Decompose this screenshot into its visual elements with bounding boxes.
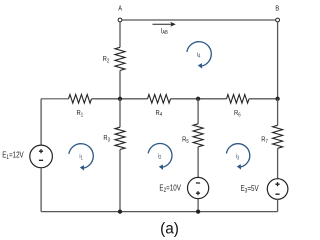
- wire: R5 down to E2: [197, 147, 199, 178]
- voltage source E2: [188, 177, 209, 198]
- wire: R3 down to bottom rail: [119, 150, 121, 212]
- loop current arrow i1: [69, 144, 93, 171]
- wire: middle rail left corner to R1: [41, 98, 68, 100]
- svg-text:E2=10V: E2=10V: [159, 184, 181, 194]
- wire: left rail down from middle rail to E1: [40, 99, 42, 145]
- wire: R1 to R4: [92, 98, 148, 100]
- label R3: [103, 135, 110, 144]
- label R5: [182, 136, 189, 145]
- wire: node B down to middle rail: [277, 22, 279, 99]
- junction dot middle rail at R5 branch: [196, 97, 200, 101]
- wire: top rail from node A to node B: [122, 19, 276, 21]
- svg-text:A: A: [118, 5, 122, 13]
- junction dot bottom rail at R3 branch: [118, 209, 122, 213]
- wire: R6 to right rail: [249, 98, 278, 100]
- wire: middle rail down to R7: [277, 99, 279, 126]
- junction dot middle rail at R3 branch: [118, 97, 122, 101]
- label R4: [156, 109, 163, 118]
- wire: E3 down to bottom rail: [277, 199, 279, 211]
- resistor R2: [115, 47, 125, 70]
- resistor R6: [227, 95, 250, 104]
- voltage source E3: [267, 179, 288, 200]
- resistor R3: [115, 127, 125, 149]
- node B label: [275, 5, 279, 13]
- wire: middle rail down to R5: [197, 99, 199, 124]
- wire: R4 to R6: [171, 98, 227, 100]
- label R2: [103, 55, 110, 64]
- wire: R2 down to middle rail: [119, 71, 121, 99]
- junction dot middle rail at right rail: [275, 97, 279, 101]
- svg-text:E1=12V: E1=12V: [2, 151, 24, 161]
- label I_AB: [161, 27, 168, 35]
- wire: E1 down to bottom rail: [40, 168, 42, 212]
- label E1=12V: [2, 151, 24, 161]
- label i3: [236, 153, 240, 161]
- wire: middle rail down to R3: [119, 99, 121, 127]
- loop current arrow i3: [226, 144, 249, 170]
- svg-text:B: B: [275, 5, 279, 13]
- label i1: [79, 153, 83, 161]
- wire: bottom rail: [41, 211, 278, 213]
- label E2=10V: [159, 184, 181, 194]
- node A terminal: [118, 18, 122, 22]
- wire: R7 down to E3: [277, 148, 279, 179]
- loop current arrow i4: [187, 42, 211, 69]
- node B terminal: [276, 18, 280, 22]
- resistor R5: [193, 124, 203, 147]
- current arrow I_AB: [153, 22, 176, 27]
- label R7: [261, 136, 268, 145]
- resistor R1: [69, 95, 92, 104]
- resistor R7: [273, 125, 283, 148]
- label R6: [234, 109, 241, 118]
- resistor R4: [148, 95, 171, 104]
- wire: E2 down to bottom rail: [197, 199, 199, 212]
- wire: node A down to R2: [119, 22, 121, 47]
- svg-text:E3=5V: E3=5V: [241, 184, 259, 194]
- voltage source E1: [30, 145, 53, 168]
- label i2: [158, 152, 162, 160]
- junction dot bottom rail at E2 branch: [196, 209, 200, 213]
- label i4: [197, 51, 201, 59]
- loop current arrow i2: [148, 144, 172, 170]
- label E3=5V: [241, 184, 259, 194]
- label R1: [77, 109, 84, 118]
- node A label: [118, 5, 122, 13]
- svg-text:(a): (a): [160, 220, 179, 237]
